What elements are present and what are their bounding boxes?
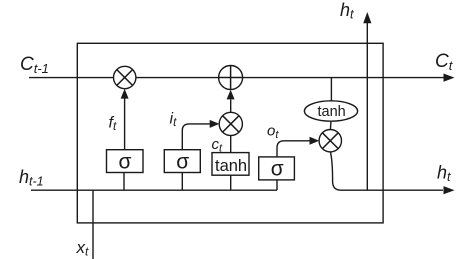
- arrowhead: forget gate into multiply: [121, 89, 129, 99]
- arrowhead: h_t up: [363, 12, 371, 23]
- wire: candidate c_t line tanh box to multiply: [230, 136, 232, 153]
- wire: sigma2 bottom stub: [181, 173, 183, 191]
- wire: forget gate arrow stem: [124, 98, 126, 150]
- multiply node: forget gate: [114, 66, 136, 88]
- tanh box (candidate): [212, 153, 249, 176]
- cell body box: [77, 43, 383, 223]
- wire: h_t-1 input line: [31, 189, 277, 191]
- svg-text:σ: σ: [271, 158, 284, 181]
- wire: sigma3 bottom stub: [276, 180, 278, 190]
- svg-text:ht-1: ht-1: [19, 167, 44, 189]
- sigma box 2 (input gate): [164, 150, 200, 173]
- wire: tap from C line down to tanh ellipse: [330, 78, 332, 101]
- wire: tanh ellipse to output multiply: [329, 121, 332, 129]
- multiply node: output gate: [319, 130, 341, 152]
- svg-text:ht: ht: [340, 0, 354, 22]
- sigma box 1 (forget gate): [107, 150, 144, 173]
- wire: x_t input riser: [92, 190, 94, 259]
- arrowhead: Ct output: [444, 74, 455, 82]
- wire: input gate arrow stem: [182, 124, 210, 150]
- arrowhead: multiply into add: [227, 90, 235, 100]
- svg-text:σ: σ: [176, 151, 189, 174]
- wire: cell state line Ct-1 to Ct: [29, 77, 444, 79]
- wire: tanh box bottom stub: [230, 175, 232, 190]
- wire: h_t upward branch: [366, 23, 368, 191]
- wire: sigma1 bottom stub: [123, 173, 125, 191]
- sigma box 3 (output gate): [259, 157, 295, 180]
- svg-text:xt: xt: [76, 238, 90, 259]
- svg-text:Ct-1: Ct-1: [20, 54, 49, 76]
- svg-text:Ct: Ct: [435, 51, 454, 73]
- svg-text:tanh: tanh: [215, 157, 247, 175]
- svg-text:ft: ft: [109, 115, 117, 134]
- arrowhead: input gate into multiply: [210, 120, 220, 128]
- wire: input-multiply to add arrow stem: [230, 100, 232, 113]
- svg-text:tanh: tanh: [318, 104, 346, 120]
- svg-text:ct: ct: [212, 136, 224, 155]
- tanh ellipse: [304, 101, 357, 121]
- wire: h_t output line: [330, 152, 443, 190]
- add node: [219, 66, 243, 90]
- arrowhead: h_t output: [444, 186, 455, 194]
- svg-text:ht: ht: [437, 163, 451, 185]
- arrowhead: output gate into multiply: [310, 137, 320, 145]
- multiply node: input gate: [219, 112, 242, 135]
- svg-text:ot: ot: [267, 123, 279, 142]
- wire: output gate arrow stem: [277, 141, 310, 157]
- svg-text:it: it: [170, 111, 178, 130]
- svg-text:σ: σ: [119, 151, 132, 174]
